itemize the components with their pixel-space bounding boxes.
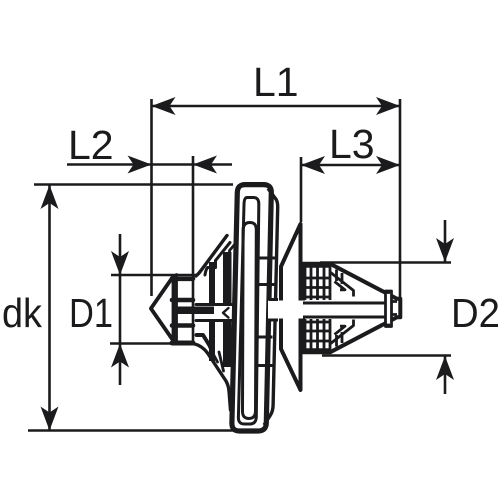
inner diagonals bottom: [330, 320, 354, 345]
D2 top extension line: [320, 261, 451, 264]
D2 dimension line upper: [444, 220, 447, 262]
arrow D2 down: [436, 238, 454, 262]
svg-text:L1: L1: [253, 59, 299, 105]
shank bar 3: [172, 323, 193, 328]
shank rib vertical: [175, 275, 178, 343]
shank top bar: [172, 276, 193, 281]
disc back outline: [264, 189, 278, 426]
conical washer: [281, 224, 301, 390]
lower skirt outer edge: [193, 344, 231, 411]
arrow L3 right: [376, 156, 400, 174]
lower skirt step: [197, 335, 210, 346]
dark bar before disc lower: [223, 321, 232, 367]
extension line x193: [192, 156, 195, 345]
channel outline cone: [303, 303, 386, 317]
channel outline disc stubs: [269, 300, 279, 321]
svg-text:dk: dk: [2, 290, 42, 336]
extension line left x151: [150, 99, 153, 296]
arrow dk down: [41, 407, 59, 431]
dk bottom extension line: [28, 429, 235, 432]
dark bar before disc upper: [223, 252, 232, 303]
arrow L2 left-pointing: [193, 156, 217, 174]
dark rib lower: [209, 322, 215, 361]
serration horizontals: [303, 278, 331, 341]
cone tip outline: [151, 276, 174, 341]
svg-text:L2: L2: [68, 122, 114, 168]
right cone outer profile: [303, 264, 400, 353]
svg-text:D2: D2: [451, 290, 500, 336]
arrow D2 up: [436, 356, 454, 380]
dimension L2 line: [67, 163, 232, 166]
lower skirt inner lines: [210, 347, 224, 371]
stem channel bottom outline: [196, 319, 232, 322]
stem channel top outline: [196, 303, 232, 306]
right cone top bar: [303, 263, 331, 267]
upper skirt outer edge: [196, 236, 227, 277]
D2 dimension line lower: [444, 356, 447, 394]
arrow D1 down: [111, 251, 129, 275]
dk top extension line: [34, 183, 233, 186]
svg-text:D1: D1: [69, 290, 113, 336]
D1 dimension line: [119, 234, 122, 385]
serration verticals lower: [305, 319, 330, 350]
stem step block: [386, 291, 392, 327]
serration ticks in diagonal zone: [337, 270, 343, 347]
dimension L1 line: [152, 105, 401, 108]
D1 top extension line: [111, 274, 196, 277]
arrow L1 right: [376, 97, 400, 115]
right cone bottom bar: [303, 348, 331, 352]
arrow dk up: [41, 185, 59, 209]
dk dimension line: [48, 185, 51, 431]
extension line x301: [300, 157, 303, 222]
arrow L2 right-pointing: [128, 156, 152, 174]
svg-text:L3: L3: [329, 121, 375, 167]
dimension L3 line: [301, 164, 400, 167]
arrow L3 left: [301, 156, 325, 174]
dark rib upper: [209, 262, 215, 303]
arrow D1 up: [111, 344, 129, 368]
stem channel white cut: [268, 301, 346, 319]
crossbar caps: [386, 293, 398, 326]
upper skirt short line: [230, 244, 236, 259]
extension line right x400: [399, 99, 402, 300]
arrow L1 left: [152, 97, 176, 115]
disc inner face line: [238, 198, 258, 425]
inner diagonals top: [330, 272, 354, 297]
shank bar 2: [172, 298, 193, 303]
disc central slot: [242, 223, 256, 419]
serration verticals upper: [305, 266, 330, 300]
D2 bottom extension line: [322, 354, 451, 357]
stem dark bar: [177, 307, 214, 315]
D1 bottom extension line: [110, 342, 193, 345]
wedge chevron: [223, 308, 229, 318]
upper skirt inner step: [205, 243, 230, 276]
disc outer outline: [232, 185, 271, 431]
disc rim rungs: [258, 258, 277, 366]
shank bottom bar: [172, 341, 193, 346]
